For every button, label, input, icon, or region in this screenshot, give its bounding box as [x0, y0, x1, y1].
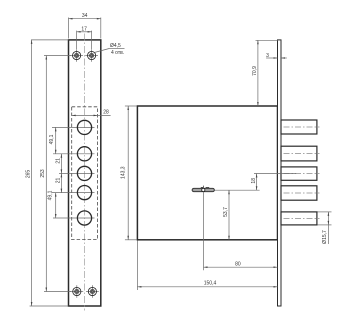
svg-text:80: 80 [235, 261, 241, 267]
svg-text:Ø4,5: Ø4,5 [110, 43, 121, 49]
dashed cutout rectangle [72, 107, 98, 240]
dimension 34 (top width) [69, 13, 101, 38]
dimension 143,3 [121, 106, 137, 240]
dimension 28 (cutout width) [72, 109, 111, 116]
bolt 1 [281, 120, 320, 134]
dimension 49,1 (circle 4 to 5) [47, 190, 56, 218]
bolt 5 [281, 212, 320, 225]
dimension Ø15,7 (bolt diameter) [318, 212, 332, 244]
svg-text:143,3: 143,3 [121, 166, 127, 179]
faceplate outline [69, 40, 101, 306]
dimension 53,7 (key center to body bottom) [223, 190, 230, 240]
dimension 150,4 (body depth) [137, 241, 277, 291]
svg-text:3: 3 [266, 53, 269, 59]
svg-text:150,4: 150,4 [204, 280, 217, 286]
dimension 265 (overall height) [25, 40, 68, 306]
faceplate edge strip [278, 40, 282, 306]
key cylinder (side) [192, 186, 214, 192]
svg-text:28: 28 [103, 109, 109, 115]
svg-text:17: 17 [81, 26, 87, 32]
dimension 253 (screw centers) [40, 56, 71, 292]
dimension 21 (circle 3 to 4) [56, 173, 63, 192]
dimension 49,1 (circle 1 to 2) [49, 127, 56, 153]
svg-text:49,1: 49,1 [47, 190, 53, 200]
screw hole bottom-right [86, 285, 99, 298]
label Ø4,5 / 4 отв. with leader [95, 43, 125, 56]
svg-text:70,9: 70,9 [252, 66, 258, 76]
lock body [137, 106, 277, 240]
bolt hole circle 1 [52, 120, 95, 134]
bolt hole circle 3 [59, 166, 95, 180]
svg-text:21: 21 [56, 178, 62, 184]
svg-text:253: 253 [40, 169, 46, 178]
bolt 3 [281, 167, 320, 180]
svg-text:34: 34 [82, 13, 88, 19]
svg-text:49,1: 49,1 [49, 134, 55, 144]
svg-text:21: 21 [56, 158, 62, 164]
bolt hole circle 5 [53, 211, 95, 225]
bolt 2 [281, 146, 320, 161]
screw hole bottom-left [70, 285, 83, 298]
screw hole top-right [85, 49, 98, 62]
plate vertical centerline [84, 34, 86, 311]
dimension 17 (screw spacing) [77, 26, 92, 49]
bolt 4 [281, 186, 320, 200]
dimension 3 (plate thickness) [266, 53, 287, 59]
bolt hole circle 4 [52, 186, 95, 200]
dimension 21 (circle 2 to 3) [56, 154, 63, 174]
screw hole top-left [70, 49, 83, 62]
dimension 80 (key center to faceplate) [204, 192, 278, 270]
dimension 18 (bolt 3 centerline to key center) [215, 174, 297, 191]
svg-text:265: 265 [25, 170, 31, 179]
svg-text:4 отв.: 4 отв. [111, 50, 124, 56]
svg-text:18: 18 [251, 178, 257, 184]
bolt hole circle 2 [53, 147, 95, 161]
svg-text:53,7: 53,7 [223, 207, 229, 217]
svg-text:Ø15,7: Ø15,7 [322, 230, 328, 244]
dimension 70,9 [252, 40, 278, 106]
